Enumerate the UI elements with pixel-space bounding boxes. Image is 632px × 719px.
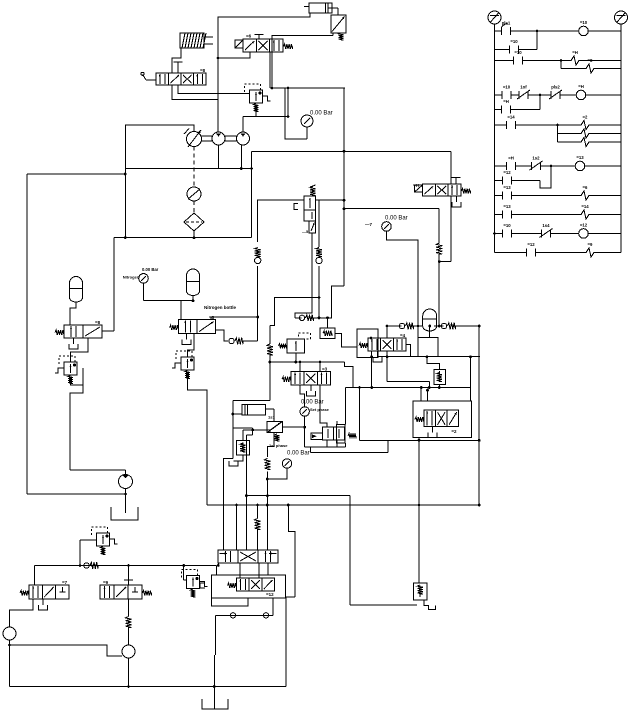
wire V9 stems: [327, 421, 337, 447]
svg-text:=H: =H: [578, 84, 584, 89]
contact =10 r11: [503, 223, 512, 238]
valve BL2 stem: [124, 566, 133, 586]
orifice O9: [126, 617, 132, 646]
svg-text:=10: =10: [503, 85, 511, 90]
wire x125: [124, 125, 127, 239]
relief valve RV3: [172, 351, 194, 379]
contact =12 r8: [503, 170, 512, 185]
wire V5 feed: [180, 301, 182, 320]
svg-text:=12: =12: [580, 223, 588, 228]
solenoid valve V5: [170, 315, 216, 334]
rung 5 wire: [495, 94, 542, 110]
rung 1 wire: [495, 30, 622, 32]
relief valve RV8: [182, 570, 208, 598]
wire RV8 feed: [184, 566, 187, 581]
solenoid valve BV2 =12: [228, 578, 275, 597]
wire cyl left col: [224, 401, 243, 550]
wire X2-G4: [282, 426, 305, 428]
svg-text:=6: =6: [246, 34, 252, 39]
orifice O10: [255, 504, 261, 530]
rung 6 branches: [556, 124, 621, 142]
orifice O3: [267, 326, 273, 364]
accumulator A3: [423, 309, 437, 337]
solenoid valve V6: [282, 367, 331, 386]
svg-text:=14: =14: [507, 115, 515, 120]
tank T2: [202, 699, 228, 709]
contact =12 r12: [527, 242, 536, 257]
orifice O5: [264, 459, 270, 551]
orifice O8: [84, 562, 98, 568]
solenoid =8 r6c: [581, 138, 589, 147]
manual valve =8: [141, 68, 206, 85]
svg-text:0.00 Bar: 0.00 Bar: [142, 267, 159, 272]
wire BL1 feed: [34, 566, 36, 586]
svg-text:=H: =H: [508, 156, 514, 161]
wire left loop: [27, 173, 127, 496]
relief valve RV4: [229, 430, 249, 466]
wire RV3 out: [188, 374, 208, 505]
wire x286: [285, 597, 295, 687]
wire x295: [287, 504, 295, 597]
svg-text:=4: =4: [400, 333, 406, 338]
wire V4 right: [102, 330, 114, 332]
pressure gauge G1: [301, 111, 333, 140]
valve V6 tank: [306, 385, 315, 396]
filter F1: [184, 213, 204, 231]
svg-text:=8: =8: [95, 320, 101, 325]
wire V7 out right: [406, 345, 411, 357]
wire V9 right feed: [345, 388, 347, 425]
pressure reducing valve PRV: [279, 333, 311, 362]
valve BL2 =9: [100, 580, 152, 599]
wire y496: [247, 496, 351, 505]
solenoid valve =6: [235, 34, 293, 53]
contact =10 r3: [514, 50, 523, 65]
wire PRV out: [270, 361, 353, 388]
wire M2 down: [128, 658, 130, 687]
svg-text:1s2: 1s2: [532, 156, 540, 161]
svg-text:=12: =12: [527, 242, 535, 247]
wire x288 down: [287, 88, 290, 118]
svg-text:=14: =14: [581, 204, 589, 209]
tank T1: [111, 507, 138, 520]
wire x480: [478, 325, 481, 507]
orifice O4: [295, 233, 332, 321]
orifice check O11: [255, 248, 261, 342]
svg-text:—7: —7: [365, 222, 373, 227]
wire K left: [258, 200, 304, 242]
relief valve RV1: [245, 84, 271, 117]
wire FC1 out: [335, 333, 357, 347]
detent stem: [174, 62, 183, 73]
wire BV1 feeds: [237, 505, 258, 550]
svg-text:1of: 1of: [520, 85, 527, 90]
rung 8 wire: [495, 165, 553, 188]
wire y208: [344, 208, 439, 210]
svg-text:=13: =13: [503, 185, 511, 190]
wire box350: [349, 505, 351, 605]
rung 10 wire: [495, 214, 622, 216]
wire M3 top: [70, 470, 126, 475]
pressure gauge G5: [267, 451, 309, 480]
wire CV1 filter dashed: [193, 201, 195, 213]
valve V7 tank: [373, 351, 382, 362]
svg-text:=8: =8: [588, 58, 594, 63]
wire valveL port: [439, 151, 451, 261]
svg-text:=10: =10: [580, 20, 588, 25]
wire G4 collector: [305, 443, 346, 447]
pressure gauge G2: [365, 216, 418, 338]
orifice O7: [417, 323, 480, 329]
wire BL1 out: [10, 599, 34, 627]
wire X2 out: [267, 433, 274, 457]
contact =H r5: [502, 99, 511, 114]
valve6 top stem: [255, 35, 264, 40]
wire G3-A2: [144, 299, 195, 302]
wire RV6 h: [350, 604, 417, 606]
solenoid valve V9: [311, 424, 356, 443]
prop valve K: [294, 185, 316, 234]
power terminal 24V: [488, 11, 501, 31]
relay coil =H: [576, 84, 586, 100]
valve V4 tank: [69, 338, 78, 349]
contact =H r7: [507, 156, 516, 171]
solenoid =2 r6: [581, 115, 589, 130]
wire cyl feed top: [233, 362, 270, 401]
svg-text:=2: =2: [583, 115, 589, 120]
wire BV1-BV2: [240, 563, 268, 578]
solenoid valve V8: [415, 410, 459, 434]
svg-text:pls2: pls2: [551, 85, 560, 90]
check-throttle E: [331, 8, 346, 33]
wire M3 down: [125, 489, 127, 514]
relay coil =13: [575, 155, 585, 171]
solenoid =5 r6b: [581, 129, 589, 138]
wire V4-RV2: [71, 338, 89, 362]
wire valve6 portB: [269, 52, 271, 88]
cartridge valve X2: [267, 421, 283, 441]
wire V8 out: [418, 438, 421, 583]
relief valve RV5: [434, 369, 445, 384]
svg-text:=13: =13: [576, 155, 584, 160]
power terminal 0V: [615, 11, 628, 31]
relay coil =12: [579, 223, 589, 239]
svg-text:Nitrogen: Nitrogen: [123, 275, 140, 280]
solenoid valve =H: [413, 183, 471, 196]
wire rv4 net: [233, 428, 270, 550]
wire x344: [331, 88, 345, 318]
contact =13 r9: [503, 185, 512, 200]
right bus rail: [620, 31, 622, 253]
valve V5 tank: [182, 334, 191, 345]
svg-text:0.00 Bar: 0.00 Bar: [301, 400, 324, 406]
wire RV2 out: [70, 368, 83, 470]
coupling line: [216, 598, 273, 618]
svg-text:—5: —5: [302, 229, 309, 234]
wire y151: [252, 151, 452, 237]
wire filter down: [193, 231, 196, 239]
valve BL1 tank: [39, 599, 48, 610]
wire BL2 out: [128, 599, 130, 617]
wire V5 right top: [211, 316, 259, 320]
wire loop pair: [346, 351, 471, 389]
main line bottom: [35, 564, 217, 567]
svg-text:0.00 Bar: 0.00 Bar: [310, 111, 333, 117]
svg-text:=10: =10: [514, 50, 522, 55]
solenoid =H r10: [581, 204, 589, 219]
contact 1of NC: [517, 85, 530, 100]
solenoid =H r3: [571, 50, 579, 65]
svg-text:=12: =12: [503, 170, 511, 175]
wire E out: [272, 36, 333, 88]
svg-text:=H: =H: [572, 50, 578, 55]
accumulator A1: [70, 277, 83, 326]
wire M1 down: [9, 640, 11, 687]
svg-text:=H: =H: [503, 99, 509, 104]
pilot valve BV1: [217, 550, 278, 567]
relief valve RV7: [92, 527, 118, 555]
wire V5 right bottom: [216, 330, 229, 341]
pressure gauge G4: [300, 400, 330, 448]
valveL tank: [452, 196, 461, 207]
contact =10 r2: [510, 39, 519, 54]
nitrogen bottle label: [204, 305, 236, 310]
svg-text:=10: =10: [503, 223, 511, 228]
wire K stair: [270, 298, 319, 326]
svg-text:=10: =10: [510, 39, 518, 44]
rung 2 wire: [495, 30, 539, 50]
orifice O6: [386, 323, 422, 329]
wire mv port P: [178, 85, 250, 94]
wire RV5 out: [420, 357, 471, 401]
svg-text:=7: =7: [62, 580, 68, 585]
wire h237: [114, 237, 252, 239]
cylinder C2: [242, 404, 275, 421]
wire y505: [207, 504, 480, 507]
valve V7 frame: [357, 329, 378, 357]
wire V8 top: [426, 389, 429, 401]
solenoid =9 r12: [586, 242, 594, 257]
svg-text:=2: =2: [451, 429, 457, 434]
svg-text:1st phase: 1st phase: [269, 443, 288, 448]
wire P3 pressure: [243, 117, 288, 133]
wire RV7 drop: [80, 540, 97, 566]
contact =10 r4: [502, 85, 511, 100]
svg-text:=6: =6: [583, 185, 589, 190]
contact pls1: [502, 21, 511, 36]
rung 9 wire: [495, 195, 622, 197]
rung 3 branch: [560, 59, 621, 68]
solenoid valve V7: [359, 333, 406, 351]
hydraulic motor M1: [3, 627, 16, 640]
flow control FC1: [320, 318, 335, 339]
wire M2 link: [8, 644, 122, 656]
contact pls2: [549, 85, 562, 100]
wire K right: [316, 199, 346, 202]
wire P2 drain dashed: [193, 147, 195, 188]
wire bottom long: [10, 685, 287, 688]
wire mv port A: [172, 85, 218, 100]
check valve CV1: [187, 187, 201, 201]
1st phase label: [269, 443, 288, 448]
solenoid =6 r9: [581, 185, 589, 200]
orifice O2: [229, 338, 258, 344]
wire cyl left: [218, 13, 310, 132]
relief valve RV2: [55, 356, 77, 384]
orifice check O12: [316, 200, 322, 319]
orifice O1: [436, 209, 442, 328]
svg-text:0.00 Bar: 0.00 Bar: [287, 451, 310, 457]
wire exchanger down: [172, 48, 181, 73]
svg-text:=H: =H: [413, 183, 419, 188]
wire h88: [270, 87, 345, 89]
rung 6 wire: [495, 124, 622, 126]
wire V6 outB: [320, 385, 327, 427]
svg-text:=8: =8: [200, 68, 206, 73]
wire main to BV2: [200, 566, 217, 589]
left bus rail: [494, 31, 496, 253]
wire RV5 feed: [427, 357, 440, 370]
svg-text:=13: =13: [503, 204, 511, 209]
wire A3 loop: [418, 326, 438, 357]
contact =14 r6: [507, 115, 516, 130]
svg-text:Nitrogen bottle: Nitrogen bottle: [204, 305, 236, 310]
valve BV2 frame: [211, 575, 285, 606]
rung 11 wire: [493, 232, 621, 235]
wire V6 outA: [300, 385, 305, 407]
heat exchanger: [180, 33, 213, 48]
rung 3 wire: [495, 60, 622, 62]
relief valve RV6: [414, 583, 436, 610]
contact 1s4 NC: [540, 223, 553, 238]
svg-text:=9: =9: [588, 242, 594, 247]
svg-text:1s1: 1s1: [268, 415, 275, 420]
wire G1 drop: [285, 88, 307, 139]
solenoid valve V4: [55, 320, 102, 338]
pump P3: [237, 132, 250, 145]
pump P2: [212, 132, 225, 145]
accumulator A2: [187, 269, 200, 301]
svg-text:=12: =12: [266, 592, 274, 597]
svg-text:=9: =9: [103, 580, 109, 585]
wire stub207: [206, 490, 208, 505]
valve V8 frame: [413, 401, 472, 438]
svg-text:Set phase: Set phase: [310, 407, 330, 412]
wire y356: [378, 355, 480, 358]
drive shaft: [202, 136, 237, 141]
node h88: [271, 87, 290, 90]
wire x114 down: [113, 238, 115, 331]
pump P1: [184, 129, 202, 148]
relay coil =10: [579, 20, 589, 36]
rung 12 wire: [495, 252, 622, 254]
wire V5-RV3: [188, 334, 195, 358]
svg-text:1s4: 1s4: [542, 223, 550, 228]
valveL detent: [452, 178, 461, 185]
hydraulic motor M3: [119, 475, 133, 489]
svg-text:=3: =3: [322, 367, 328, 372]
valve V8 tank: [428, 427, 437, 438]
contact =13 r10: [503, 204, 512, 219]
valve BL1 =7: [20, 580, 69, 599]
svg-text:0.00 Bar: 0.00 Bar: [385, 216, 408, 222]
wire tank stem: [214, 615, 215, 709]
svg-text:pls1: pls1: [502, 21, 511, 26]
cylinder D: [304, 3, 338, 13]
wire V7 top: [386, 325, 389, 338]
wire y452: [310, 386, 480, 453]
wire suction manifold: [125, 125, 253, 170]
solenoid =8 r3b: [586, 58, 594, 73]
rung 4 wire: [495, 94, 622, 96]
wire valve6 portA: [217, 52, 250, 59]
hydraulic motor M2: [122, 645, 135, 658]
E spring: [333, 33, 343, 40]
pressure gauge G3: [123, 267, 159, 301]
rung 7 wire: [495, 165, 622, 167]
contact 1s2 NC: [530, 156, 543, 171]
